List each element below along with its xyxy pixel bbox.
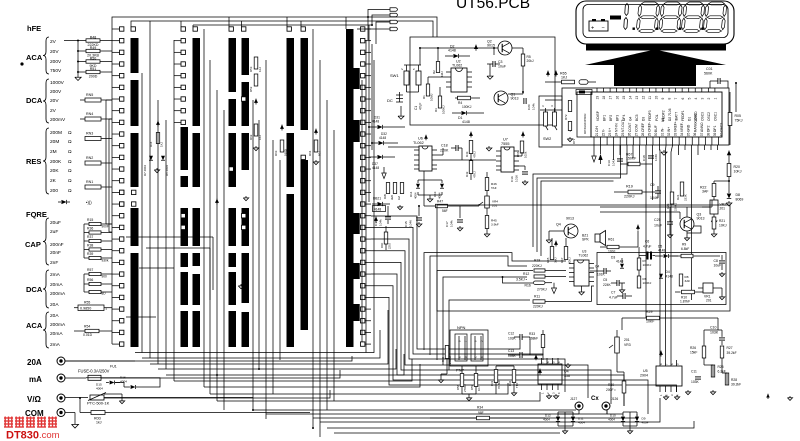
zebra connector bar: [586, 44, 726, 51]
svg-text:R56: R56: [87, 278, 93, 282]
Q3 base wire: [600, 211, 680, 213]
svg-text:104k: 104k: [532, 103, 536, 110]
svg-text:TBF: TBF: [515, 382, 519, 388]
svg-text:D6 4004: D6 4004: [165, 165, 169, 176]
svg-text:TAF: TAF: [491, 186, 497, 190]
svg-text:V-: V-: [602, 129, 606, 132]
svg-text:C25: C25: [654, 218, 661, 222]
svg-text:R38: R38: [87, 244, 93, 248]
svg-text:C9: C9: [650, 183, 655, 187]
svg-text:23: 23: [608, 132, 612, 136]
svg-text:Ω: Ω: [68, 159, 72, 165]
svg-text:15kF: 15kF: [690, 351, 697, 355]
svg-text:1KJ: 1KJ: [258, 66, 262, 72]
top bus wires: [112, 17, 437, 37]
svg-text:4148: 4148: [379, 136, 386, 140]
svg-text:PTC-500-1K: PTC-500-1K: [87, 401, 110, 406]
svg-text:/BATT: /BATT: [674, 112, 678, 121]
svg-text:U1: U1: [661, 118, 665, 122]
svg-text:6.8kF: 6.8kF: [681, 247, 689, 251]
svg-text:2K: 2K: [50, 178, 57, 184]
svg-text:U6: U6: [418, 137, 423, 141]
svg-text:R32: R32: [508, 380, 512, 386]
lcd minus sign: [610, 16, 621, 20]
svg-text:C: C: [474, 356, 478, 358]
ground at COM: [74, 413, 76, 423]
svg-text:NT-IN: NT-IN: [615, 123, 619, 132]
svg-text:D4: D4: [666, 270, 670, 274]
svg-text:33: 33: [674, 132, 678, 136]
diodes D7 D6 4004: [149, 156, 153, 160]
svg-text:4004: 4004: [608, 418, 615, 422]
svg-text:DB21: DB21: [373, 197, 381, 201]
svg-text:TL062: TL062: [579, 254, 589, 258]
svg-text:R34: R34: [477, 406, 483, 410]
svg-text:UT56.PCB: UT56.PCB: [456, 0, 530, 12]
LCD display body: [576, 1, 734, 44]
R27 39.2kF resistor: [720, 346, 724, 358]
D4 4148 diode: [659, 274, 663, 278]
Q1 9013 transistor: [494, 91, 508, 105]
D14 4004 diode: [416, 184, 420, 188]
svg-text:224K: 224K: [603, 283, 612, 287]
svg-text:OSC3: OSC3: [701, 112, 705, 121]
svg-text:D2: D2: [668, 117, 672, 121]
svg-text:C14: C14: [374, 220, 378, 226]
grounds bottom right: [687, 390, 689, 392]
svg-text:C01: C01: [706, 67, 713, 71]
svg-text:ANNO: ANNO: [700, 122, 704, 132]
vertical bus wafer4-5: [312, 29, 314, 428]
svg-text:C4: C4: [595, 265, 599, 269]
watermark chinese characters: [4, 417, 13, 428]
svg-text:101K: 101K: [515, 174, 519, 182]
svg-text:4004: 4004: [642, 421, 649, 425]
wafer 3 top contacts: [229, 27, 233, 31]
vertical bus wafer3-4: [252, 100, 254, 410]
svg-text:R23: R23: [666, 203, 670, 209]
wafer 1 bar segment d: [131, 208, 139, 246]
svg-text:18: 18: [602, 96, 606, 100]
svg-text:28: 28: [641, 132, 645, 136]
svg-text:J127: J127: [570, 397, 577, 401]
Q3 collector wire: [686, 207, 688, 217]
svg-text:R58: R58: [456, 384, 460, 390]
terminal 20A wire: [65, 356, 352, 361]
svg-text:200V: 200V: [50, 59, 62, 65]
lcd digit 1: [625, 4, 629, 16]
svg-text:4148: 4148: [372, 166, 379, 170]
IC outer box: [562, 88, 729, 145]
svg-text:Ω: Ω: [68, 178, 72, 184]
svg-text:20nF: 20nF: [50, 250, 61, 256]
svg-text:C12: C12: [508, 332, 514, 336]
svg-text:220KJ: 220KJ: [533, 305, 543, 309]
wafer 1 mid contacts: [120, 190, 124, 194]
svg-text:39: 39: [713, 132, 717, 136]
R4 100KJ resistor: [458, 96, 471, 100]
svg-text:1kJ: 1kJ: [96, 421, 102, 425]
svg-text:4148: 4148: [374, 208, 381, 212]
svg-text:Ω: Ω: [68, 149, 72, 155]
svg-text:R9: R9: [682, 243, 686, 247]
svg-text:C19: C19: [607, 160, 611, 166]
svg-text:R59: R59: [470, 384, 474, 390]
svg-text:IN-: IN-: [661, 128, 665, 132]
svg-text:17: 17: [609, 96, 613, 100]
grounds under U4: [548, 394, 550, 396]
V+ arrow U4: [535, 355, 537, 361]
svg-text:4148: 4148: [616, 260, 624, 264]
svg-text:9013: 9013: [697, 217, 705, 221]
rotary dot: [20, 62, 23, 65]
svg-text:20V: 20V: [50, 98, 59, 104]
svg-text:R26: R26: [690, 346, 696, 350]
svg-text:R36: R36: [87, 227, 93, 231]
svg-text:9015: 9015: [487, 44, 495, 48]
ground D8: [728, 201, 730, 203]
wafer 1 bar segment e: [131, 253, 139, 347]
svg-text:100KJ: 100KJ: [442, 105, 446, 114]
svg-text:56F: 56F: [442, 209, 448, 213]
D13 4004 diode: [440, 184, 444, 188]
V+ arrow and R14 between wafer1-2: [157, 121, 159, 127]
svg-text:BUF: BUF: [654, 125, 658, 132]
svg-text:R60: R60: [380, 242, 384, 248]
ground U3: [581, 290, 583, 292]
svg-text:7: 7: [674, 98, 678, 100]
ground D13 D14: [429, 197, 431, 199]
svg-text:D14: D14: [409, 191, 413, 197]
svg-text:10KJ: 10KJ: [734, 170, 742, 174]
svg-text:3AF: 3AF: [702, 190, 708, 194]
svg-text:+: +: [591, 26, 594, 32]
ground under R44: [399, 205, 401, 207]
svg-text:POL: POL: [655, 114, 659, 121]
svg-text:9: 9: [661, 98, 665, 100]
diode D9 4004: [635, 417, 639, 422]
wire 20A terminal stub: [65, 360, 135, 362]
wafer 3 right bar segments: [242, 38, 250, 75]
R8 3AF resistor: [679, 274, 683, 286]
svg-text:10KF: 10KF: [646, 320, 654, 324]
svg-text:R11: R11: [534, 295, 540, 299]
lcd digit 8 c: [681, 2, 705, 32]
svg-text:OSC1: OSC1: [714, 112, 718, 121]
svg-text:20A: 20A: [50, 302, 59, 308]
svg-text:R54: R54: [84, 325, 90, 329]
svg-text:930k: 930k: [102, 259, 109, 263]
R21 10KJ resistor: [712, 217, 716, 229]
R26 15kF resistor: [702, 346, 706, 358]
svg-text:104k: 104k: [379, 219, 383, 226]
vertical bus wafer1-2: [141, 73, 143, 353]
branch to R16: [502, 276, 504, 278]
svg-text:102k: 102k: [524, 151, 528, 158]
left bus wires: [105, 100, 107, 224]
IC drop long verticals: [645, 145, 647, 318]
svg-text:•))): •))): [86, 200, 92, 205]
svg-text:R3: R3: [434, 108, 438, 112]
ground C8: [721, 272, 723, 274]
R7 100KJ resistor: [637, 258, 641, 270]
svg-text:1000V: 1000V: [50, 80, 65, 86]
svg-text:1.87kF: 1.87kF: [680, 300, 690, 304]
wafer5 fanout to mid bundle: [371, 216, 520, 349]
svg-text:31: 31: [661, 132, 665, 136]
svg-text:2V: 2V: [50, 39, 57, 45]
svg-text:C16: C16: [510, 176, 514, 182]
svg-text:20A: 20A: [50, 313, 59, 319]
svg-text:4004: 4004: [96, 387, 103, 391]
battery icon: [589, 21, 608, 31]
R63 resistor: [281, 125, 283, 131]
long verticals C01 area: [735, 83, 737, 112]
svg-text:104k: 104k: [450, 220, 454, 227]
svg-text:200mA: 200mA: [50, 291, 66, 297]
svg-text:V+: V+: [608, 128, 612, 132]
ground right mid: [713, 219, 715, 221]
svg-text:D8: D8: [736, 193, 741, 197]
ground C16: [524, 180, 526, 182]
PTC thermistor: [65, 397, 88, 399]
svg-text:R25: R25: [718, 365, 724, 369]
svg-text:101K: 101K: [597, 273, 606, 277]
V+ arrow below IC pin22: [598, 154, 602, 160]
R62 resistor: [254, 124, 258, 136]
svg-text:GND: GND: [687, 124, 691, 132]
svg-text:U5: U5: [643, 369, 648, 373]
svg-text:C3: C3: [498, 60, 503, 64]
svg-text:DP2: DP2: [706, 125, 710, 132]
svg-text:4.7uF: 4.7uF: [643, 245, 651, 249]
R40 270KJ resistor: [445, 346, 449, 359]
svg-text:750V: 750V: [50, 68, 62, 74]
svg-text:R40: R40: [441, 356, 445, 362]
R35 R41 R44 vertical resistors: [386, 183, 389, 194]
wafer 2 mid contacts: [181, 214, 185, 218]
D8 8069 zener diode: [727, 193, 732, 198]
R24 223K resistor: [680, 182, 684, 196]
V- arrow below D37: [382, 173, 386, 179]
svg-text:SW2: SW2: [543, 137, 551, 141]
svg-text:9013: 9013: [511, 97, 519, 101]
R53 R52 stack right of wafer3: [254, 57, 258, 69]
svg-text:270KJ: 270KJ: [463, 383, 467, 392]
svg-text:R39: R39: [87, 252, 93, 256]
svg-text:VR3: VR3: [624, 343, 631, 347]
wafer 2 right bar segments: [193, 38, 201, 126]
svg-text:100J: 100J: [608, 250, 616, 254]
svg-text:200F •: 200F •: [606, 388, 616, 392]
far right small symbols: [767, 394, 769, 399]
R71 resistor: [568, 122, 571, 131]
R28 39.2kF resistor: [725, 373, 729, 385]
wafer 4 top contacts: [287, 27, 291, 31]
svg-text:FEDP3: FEDP3: [648, 110, 652, 121]
wafer 3 left bar segments: [229, 38, 237, 92]
svg-text:10: 10: [655, 96, 659, 100]
R64 resistor: [314, 140, 318, 152]
svg-text:10uF: 10uF: [714, 264, 722, 268]
IC pins top: [596, 88, 598, 92]
svg-text:4004: 4004: [578, 421, 585, 425]
wires under diodes: [557, 412, 559, 417]
svg-text:14: 14: [628, 96, 632, 100]
svg-text:.com: .com: [39, 430, 60, 441]
osc circuit wires: [420, 47, 498, 49]
svg-text:ACA: ACA: [26, 53, 43, 62]
ground below SW1: [400, 114, 402, 116]
wires bottom right: [703, 330, 705, 346]
wires hFE area: [513, 366, 515, 370]
R1 resistor: [426, 84, 429, 96]
R68 220KJ resistor: [670, 192, 674, 204]
ground R21: [713, 232, 715, 234]
svg-text:104J: 104J: [612, 159, 616, 166]
svg-text:Cx: Cx: [591, 396, 599, 402]
svg-text:29: 29: [647, 132, 651, 136]
svg-text:R28: R28: [731, 378, 737, 382]
SW2 box: [539, 96, 562, 147]
svg-text:BP2: BP2: [609, 115, 613, 121]
V+ arrow R43: [470, 132, 472, 138]
wafer 5 contacts: [361, 27, 365, 31]
svg-text:40: 40: [719, 132, 723, 136]
svg-text:1KJ: 1KJ: [561, 76, 567, 80]
svg-text:358: 358: [564, 374, 570, 378]
svg-text:104K: 104K: [409, 219, 413, 227]
svg-text:R63: R63: [274, 150, 278, 156]
svg-text:DP3URDP40R: DP3URDP40R: [583, 113, 587, 134]
svg-text:200M: 200M: [50, 130, 62, 136]
ground R62: [255, 146, 257, 148]
svg-text:R37: R37: [87, 235, 93, 239]
svg-text:C17: C17: [445, 221, 449, 227]
ground C5: [621, 288, 623, 290]
V+ arrow hFE: [539, 369, 541, 375]
wafer 1 bar segment b: [131, 80, 139, 126]
svg-text:R53: R53: [249, 66, 253, 72]
svg-text:D7 4004: D7 4004: [143, 165, 147, 176]
svg-text:98F: 98F: [478, 411, 484, 415]
battery connector pads: [390, 8, 398, 12]
ground below R51: [77, 41, 79, 76]
svg-text:RN5: RN5: [86, 93, 93, 97]
svg-text:76.8kF: 76.8kF: [497, 380, 501, 389]
svg-text:3AF: 3AF: [685, 279, 691, 283]
svg-text:VREF+: VREF+: [674, 121, 678, 132]
lcd decimal points: [633, 28, 635, 30]
svg-text:10J: 10J: [477, 386, 481, 391]
svg-text:R16: R16: [525, 284, 531, 288]
R32 resistor: [512, 370, 516, 383]
svg-text:G4: G4: [629, 116, 633, 121]
svg-text:200mA: 200mA: [50, 322, 66, 328]
svg-text:30: 30: [654, 132, 658, 136]
wafer 2 top contacts: [181, 27, 185, 31]
IC U1 7106 body: [591, 92, 722, 137]
svg-text:150KF: 150KF: [626, 157, 636, 161]
svg-text:R19: R19: [626, 185, 633, 189]
svg-text:C20: C20: [527, 104, 531, 110]
svg-text:RES: RES: [26, 157, 41, 166]
svg-text:4148: 4148: [372, 120, 379, 124]
R45 3.9kF resistor: [485, 216, 489, 229]
svg-text:200mV: 200mV: [50, 117, 66, 123]
svg-text:1KJ: 1KJ: [160, 141, 164, 147]
svg-text:900F: 900F: [102, 225, 109, 229]
svg-text:201: 201: [624, 338, 630, 342]
V+ arrow right column: [728, 151, 730, 158]
R20 10KJ resistor: [727, 164, 731, 177]
svg-text:4: 4: [694, 98, 698, 100]
lcd digit 8 b: [659, 2, 683, 32]
ground R32: [513, 391, 515, 393]
svg-text:CREF-: CREF-: [647, 122, 651, 132]
svg-text:DC: DC: [387, 98, 393, 103]
wafer 1 top contact right: [131, 27, 135, 31]
svg-text:103K: 103K: [710, 331, 719, 335]
R16 270KJ resistor: [534, 281, 546, 284]
svg-text:R72: R72: [564, 114, 568, 120]
svg-text:DCA: DCA: [26, 96, 43, 105]
wafer 1 bar segment a: [131, 38, 139, 73]
diode-buzzer range symbol: [61, 200, 66, 204]
svg-text:11: 11: [648, 96, 652, 100]
svg-text:BP1: BP1: [602, 115, 606, 121]
svg-text:2: 2: [707, 98, 711, 100]
svg-text:39.2kF: 39.2kF: [731, 383, 741, 387]
fuse output wire: [103, 378, 160, 387]
svg-text:FU1: FU1: [110, 365, 117, 369]
svg-text:2mA: 2mA: [50, 272, 61, 278]
V+ arrow R18: [555, 241, 557, 247]
V+ arrow wafer4: [315, 129, 317, 135]
svg-text:C18: C18: [441, 144, 448, 148]
R66 resistor: [520, 141, 524, 153]
svg-text:NT-OUT: NT-OUT: [621, 120, 625, 132]
svg-text:B: B: [464, 356, 468, 358]
svg-text:R12: R12: [523, 272, 529, 276]
V- symbol R16: [552, 288, 557, 294]
svg-text:RN2: RN2: [86, 156, 93, 160]
grounds under diodes: [564, 429, 566, 431]
svg-text:22: 22: [602, 132, 606, 136]
cross connect wires lower: [126, 236, 213, 238]
svg-text:3.9kF: 3.9kF: [491, 223, 499, 227]
svg-text:20K: 20K: [50, 168, 59, 174]
VR1 201 pot: [703, 283, 713, 293]
svg-text:2V: 2V: [50, 108, 57, 114]
V+ arrow R66: [522, 132, 524, 138]
svg-text:COM: COM: [634, 124, 638, 132]
svg-text:Ω: Ω: [68, 188, 72, 194]
svg-text:SPK: SPK: [582, 238, 590, 242]
svg-text:hFE: hFE: [27, 24, 41, 33]
svg-text:Ω: Ω: [68, 130, 72, 136]
svg-text:R57: R57: [87, 268, 93, 272]
bottom fan-out staircase wires: [135, 337, 374, 353]
svg-text:20M: 20M: [50, 139, 59, 145]
svg-text:220K: 220K: [440, 149, 449, 153]
svg-text:ACA: ACA: [26, 321, 43, 330]
svg-text:12: 12: [641, 96, 645, 100]
svg-text:10MJ: 10MJ: [430, 93, 434, 101]
svg-text:4148: 4148: [666, 275, 674, 279]
ground near PTC: [121, 399, 123, 401]
R43 resistor: [469, 141, 473, 154]
